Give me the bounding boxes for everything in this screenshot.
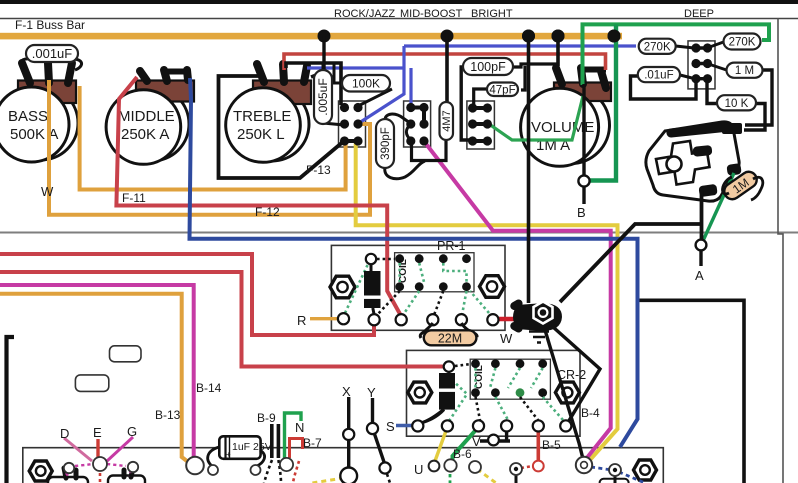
svg-text:PR-1: PR-1 bbox=[437, 239, 466, 253]
potentiometer TREBLE 250K L bbox=[226, 64, 311, 162]
wire blue S bbox=[396, 424, 414, 427]
wire black treble lug2 run bbox=[286, 63, 341, 105]
wire green zigzag bright switch to volume bbox=[489, 96, 583, 140]
svg-text:500K A: 500K A bbox=[10, 126, 58, 143]
capacitor .001uF leads bbox=[20, 59, 30, 69]
relay PR-1 dotted links bbox=[345, 259, 489, 315]
hex nut CR-2 left bbox=[408, 382, 432, 403]
svg-text:B-7: B-7 bbox=[303, 436, 322, 450]
wire black blob to rotary bbox=[560, 191, 702, 302]
svg-text:BASS: BASS bbox=[8, 108, 48, 125]
wire yellow dashed eyelet bbox=[477, 469, 496, 483]
svg-text:R: R bbox=[297, 313, 306, 328]
resistor 22M leads bbox=[420, 323, 477, 338]
wire black eyelet pins bbox=[516, 475, 615, 483]
svg-text:ROCK/JAZZ: ROCK/JAZZ bbox=[334, 8, 395, 20]
wire black 10K right lead bbox=[744, 104, 765, 131]
hex nut board left bbox=[29, 461, 52, 481]
pot rear body board-left 1 bbox=[48, 477, 88, 483]
diode CR-2 bbox=[421, 361, 455, 423]
wire black 390pF top lead bbox=[385, 114, 410, 123]
potentiometer VOLUME 1M A bbox=[521, 68, 611, 166]
relay PR-1 coil box bbox=[395, 253, 474, 292]
wire pink D diag bbox=[64, 438, 92, 461]
svg-text:B: B bbox=[577, 205, 586, 220]
resistor 270K left bbox=[639, 39, 676, 54]
svg-text:BRIGHT: BRIGHT bbox=[471, 8, 513, 20]
relay CR-2 coil box bbox=[470, 359, 550, 399]
svg-text:Y: Y bbox=[367, 385, 376, 400]
capacitor 100pF bbox=[463, 58, 513, 75]
node A circle bbox=[696, 240, 707, 251]
svg-text:S: S bbox=[386, 419, 395, 434]
svg-text:X: X bbox=[342, 384, 351, 399]
wire green rotary to A bbox=[702, 173, 734, 243]
svg-text:47pF: 47pF bbox=[489, 84, 515, 96]
wire magenta mid-boost to eyelet bbox=[424, 141, 611, 459]
svg-text:TREBLE: TREBLE bbox=[233, 108, 291, 125]
capacitor 1uF 25V body bbox=[219, 436, 271, 459]
relay PR-1 terminals bbox=[338, 313, 499, 325]
wire black 270K left to deep switch bbox=[676, 46, 694, 48]
wire gold B-13 bbox=[0, 294, 192, 465]
wire yellow switch A to right riser bbox=[356, 142, 618, 461]
svg-text:.005uF: .005uF bbox=[316, 78, 330, 115]
relay PR-1 coil dots bbox=[395, 254, 471, 291]
wire black bar to volume lug1 bbox=[556, 36, 560, 66]
wire black 100pF to volume lug1 bbox=[512, 64, 559, 90]
wire black .005uF bottom lead bbox=[323, 123, 344, 125]
eyelet U bbox=[429, 461, 440, 472]
svg-text:B-5: B-5 bbox=[542, 438, 561, 452]
eyelet pin bbox=[510, 463, 522, 475]
svg-text:250K A: 250K A bbox=[121, 126, 169, 143]
eyelet left bbox=[64, 463, 74, 473]
F-1 buss bar bbox=[0, 33, 622, 40]
wire yellow dashed X bbox=[312, 478, 344, 483]
wire black 1M right lead bbox=[745, 70, 772, 125]
wire black .005uF top lead bbox=[322, 63, 325, 73]
wire blue bright net bbox=[307, 46, 636, 123]
buss junction dot (to PR-1) bbox=[522, 30, 535, 43]
wire black 100K right lead bbox=[358, 89, 392, 106]
switch A contacts bbox=[340, 103, 363, 146]
eyelet B-13/B-14 big bbox=[186, 457, 204, 475]
svg-text:B-4: B-4 bbox=[581, 406, 600, 420]
wire gold bass lug3 to switch A bbox=[80, 86, 346, 190]
hex nut CR-2 right bbox=[555, 382, 579, 403]
svg-text:F-1 Buss Bar: F-1 Buss Bar bbox=[15, 18, 85, 32]
wire black 4M7 bottom L bbox=[412, 139, 447, 161]
svg-text:A: A bbox=[695, 268, 704, 283]
switch B contacts bbox=[406, 103, 428, 146]
empty label box 2 bbox=[75, 375, 108, 392]
svg-text:CR-2: CR-2 bbox=[557, 368, 586, 382]
wire black Y dashed bbox=[387, 474, 390, 483]
G terminal circle volume bbox=[578, 175, 589, 186]
svg-text:100pF: 100pF bbox=[470, 60, 506, 74]
wire black volume G line bbox=[582, 84, 585, 204]
eyelet Y mid bbox=[367, 423, 378, 434]
potentiometer BASS 500K A bbox=[0, 63, 78, 162]
relay PR-1 outer box bbox=[331, 245, 505, 330]
wire black deep to 10K bbox=[707, 82, 717, 104]
switch B (mid-boost switch) body bbox=[404, 101, 431, 147]
svg-text:F-11: F-11 bbox=[122, 191, 146, 205]
svg-text:270K: 270K bbox=[644, 41, 671, 53]
relay CR-2 dotted links bbox=[449, 364, 563, 421]
resistor 100K bbox=[342, 75, 390, 92]
rotary switch body bbox=[646, 122, 742, 201]
svg-text:F-13: F-13 bbox=[306, 163, 331, 177]
relay CR-2 coil dots bbox=[471, 359, 547, 397]
V loop circle bbox=[488, 435, 499, 446]
chassis mid gray line bbox=[0, 232, 798, 234]
wire black 100pF left lead bbox=[461, 67, 471, 140]
capacitor C .001uF label bbox=[26, 45, 78, 62]
resistor 1 M bbox=[727, 63, 763, 78]
eyelet yellow bbox=[469, 461, 481, 473]
wire black 1uF right lead bbox=[257, 450, 265, 466]
svg-text:MID-BOOST: MID-BOOST bbox=[400, 8, 463, 20]
svg-text:100K: 100K bbox=[352, 76, 380, 90]
wire black bar to PR-1 blob bbox=[527, 36, 531, 303]
wire red B-5 bbox=[536, 427, 540, 460]
svg-text:250K L: 250K L bbox=[237, 126, 285, 143]
wire black 390pF bottom lead bbox=[385, 161, 425, 179]
wire black X bbox=[347, 397, 350, 468]
wire black A drop bbox=[699, 250, 702, 266]
capacitor .005uF bbox=[314, 70, 332, 124]
wire green volume lug2 bbox=[583, 24, 770, 85]
wire navy middle pot to eyelet bbox=[190, 78, 638, 447]
resistor 22M bbox=[424, 330, 477, 345]
buss dots restamp bbox=[522, 30, 535, 43]
wire black mid-boost drop to 4M7 bbox=[445, 36, 449, 103]
buss junction dot (MID-BOOST) bbox=[441, 30, 454, 43]
svg-text:1 M: 1 M bbox=[735, 65, 754, 77]
eyelet right of EG bbox=[128, 462, 138, 472]
wire red dashed B-7 bbox=[293, 461, 299, 483]
buss junction dot (volume) bbox=[552, 30, 565, 43]
resistor 1M leads bbox=[723, 177, 763, 200]
switch DEEP contacts bbox=[691, 43, 712, 83]
top crop border bbox=[0, 0, 798, 4]
wire green dashed B-6 bbox=[449, 474, 452, 483]
resistor 270K right bbox=[724, 34, 761, 50]
svg-text:390pF: 390pF bbox=[380, 127, 392, 160]
eyelet 1uF right bbox=[251, 465, 261, 475]
right enclosure border bbox=[778, 19, 783, 483]
capacitor 47pF bbox=[487, 83, 518, 97]
eyelet N green bbox=[280, 458, 293, 471]
svg-text:W: W bbox=[41, 184, 54, 199]
wire red F-11 middle pot to PR-1 bbox=[116, 77, 400, 314]
hex nut PR-1 right bbox=[480, 276, 505, 298]
svg-text:22M: 22M bbox=[438, 332, 462, 346]
wire red E bbox=[96, 439, 99, 457]
wire black S to diode bbox=[421, 409, 444, 423]
wire black 100K left lead bbox=[334, 64, 342, 83]
svg-text:B-9: B-9 bbox=[257, 411, 276, 425]
svg-text:4M7: 4M7 bbox=[441, 110, 453, 131]
pot rear lugs board-left bbox=[64, 468, 133, 478]
ground symbol bbox=[529, 332, 549, 343]
wire black .01uF left loop bbox=[631, 76, 697, 99]
eyelet B-5 red bbox=[533, 461, 544, 472]
chassis top edge line bbox=[0, 18, 798, 20]
svg-text:W: W bbox=[500, 331, 513, 346]
wire black B-4 bbox=[553, 327, 600, 424]
rounded box bottom right bbox=[600, 479, 629, 483]
wire black deep switch to 1M bbox=[707, 64, 727, 71]
hex nut board right bbox=[634, 460, 657, 480]
svg-text:DEEP: DEEP bbox=[684, 8, 714, 20]
svg-text:10 K: 10 K bbox=[725, 98, 749, 110]
wire black blob to eyelet bbox=[545, 330, 583, 459]
svg-text:V: V bbox=[472, 434, 481, 449]
svg-text:B-13: B-13 bbox=[155, 408, 181, 422]
svg-text:1uF 25V: 1uF 25V bbox=[232, 441, 272, 453]
wire red B-7 bracket bbox=[290, 439, 303, 459]
svg-text:F-12: F-12 bbox=[255, 205, 280, 219]
eyelet big right bbox=[576, 457, 592, 473]
wire black 1uF left lead bbox=[208, 447, 219, 466]
wire magenta G diag bbox=[107, 437, 133, 461]
wire orange R bbox=[310, 317, 340, 320]
eyelet X mid bbox=[343, 429, 354, 440]
svg-text:MIDDLE: MIDDLE bbox=[118, 108, 175, 125]
wire black F-13 frame bbox=[219, 76, 345, 178]
switch C contacts bbox=[468, 103, 492, 145]
wire red dashed B-5 link bbox=[521, 466, 533, 468]
switch A (tone switch F-13) body bbox=[339, 101, 366, 147]
wire magenta dashed board links bbox=[66, 464, 131, 477]
board outline bottom bbox=[23, 448, 664, 483]
svg-text:D: D bbox=[60, 426, 69, 441]
svg-text:E: E bbox=[93, 425, 102, 440]
svg-text:B-14: B-14 bbox=[196, 381, 222, 395]
wire green N bracket bbox=[285, 413, 302, 458]
output box bottom right bbox=[637, 300, 744, 483]
wire black deep switch to .01uF bbox=[680, 75, 696, 79]
wire black V bracket bbox=[480, 427, 510, 441]
capacitor 390pF bbox=[376, 119, 394, 168]
resistor 10 K bbox=[717, 95, 756, 110]
eyelet pin right bbox=[609, 464, 621, 476]
svg-text:N: N bbox=[295, 420, 304, 435]
diode PR-1 bbox=[364, 254, 381, 314]
relay CR-2 terminals bbox=[412, 420, 571, 431]
eyelet B-6 bbox=[444, 459, 456, 471]
pot rear body board-left 2 bbox=[108, 476, 145, 483]
svg-text:.01uF: .01uF bbox=[644, 70, 673, 82]
wire black Y bbox=[373, 398, 385, 462]
svg-text:.001uF: .001uF bbox=[32, 46, 73, 61]
switch DEEP body bbox=[688, 41, 715, 89]
switch C (bright switch) body bbox=[467, 101, 495, 149]
wire red feed 2 to CR-2 bbox=[0, 272, 444, 367]
wire black bottom-left L bbox=[7, 337, 15, 483]
hex nut PR-1 left bbox=[330, 276, 355, 298]
empty label box 1 bbox=[110, 346, 142, 362]
eyelet Y low bbox=[379, 462, 390, 473]
wire red feed 1 to PR-1 bbox=[0, 254, 374, 335]
resistor 1M rotary bbox=[721, 169, 760, 203]
relay CR-2 outer box bbox=[407, 350, 581, 436]
wire black 47pF left lead bbox=[474, 89, 487, 106]
capacitor .01uF bbox=[638, 67, 680, 82]
wire black B-9 bars bbox=[272, 424, 279, 458]
wire black rock-jazz drop bbox=[311, 36, 324, 77]
wire black B-9 dashed bbox=[264, 460, 281, 483]
wire magenta B-14 bbox=[0, 285, 194, 459]
eyelet X big bbox=[340, 468, 357, 483]
pot rear blob bbox=[509, 298, 562, 334]
resistor 4M7 bbox=[440, 102, 454, 140]
wire navy dashed to eyelet bbox=[591, 467, 645, 483]
wire red PR-1 W out bbox=[497, 317, 517, 322]
buss junction dot (ROCK/JAZZ) bbox=[318, 30, 331, 43]
eyelet D-E-G bbox=[93, 457, 107, 471]
svg-text:G: G bbox=[127, 424, 137, 439]
wire green B-6 bbox=[453, 427, 479, 461]
wire yellow U bbox=[435, 427, 447, 461]
wire gold W bass wiper bbox=[49, 80, 370, 215]
svg-text:+: + bbox=[226, 450, 231, 459]
buss junction dot (green) bbox=[608, 30, 621, 43]
wire red treble to volume bbox=[284, 54, 606, 70]
eyelet 1uF left bbox=[208, 465, 218, 475]
svg-text:B-6: B-6 bbox=[453, 447, 472, 461]
wire green dark G loop bbox=[590, 24, 616, 180]
svg-text:270K: 270K bbox=[729, 37, 756, 49]
wire red dashed below E bbox=[99, 473, 102, 483]
wire black deep switch to 270K right bbox=[707, 42, 724, 48]
potentiometer MIDDLE 250K A bbox=[106, 70, 194, 164]
svg-text:U: U bbox=[414, 462, 423, 477]
